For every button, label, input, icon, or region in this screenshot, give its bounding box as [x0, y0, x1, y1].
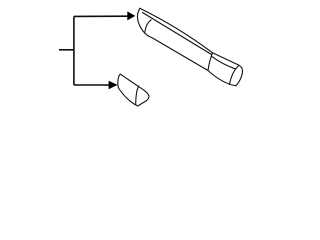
bracket top arm wire [74, 15, 128, 17]
moulding left flap outline [137, 8, 152, 38]
moulding cap crease [229, 66, 238, 85]
end cap outline [118, 74, 149, 106]
moulding top edge [140, 8, 239, 65]
bracket left tick [59, 49, 74, 51]
moulding cap left edge [208, 53, 213, 71]
end cap crease [136, 86, 139, 105]
arrowhead to end cap [109, 81, 118, 90]
bracket bottom arm wire [74, 84, 109, 86]
bracket vertical line [73, 16, 75, 85]
moulding flap inner curve [145, 20, 151, 33]
moulding cap bottom edge [208, 71, 236, 86]
moulding cap right edge [236, 65, 243, 85]
arrowhead to moulding [127, 11, 135, 20]
moulding cap top band line [212, 56, 236, 69]
moulding bottom edge [152, 38, 208, 71]
moulding crease line [143, 13, 212, 55]
